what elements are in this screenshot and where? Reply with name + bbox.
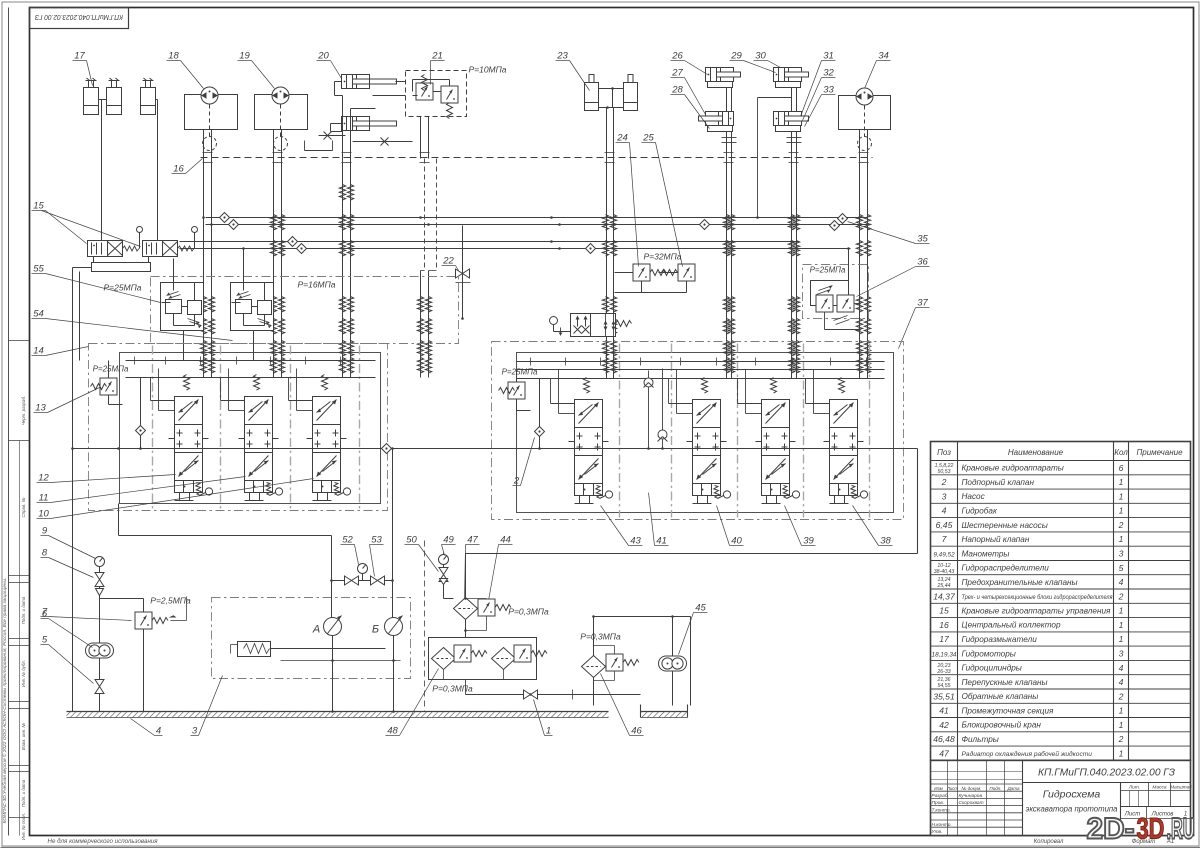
svg-text:36: 36 xyxy=(917,257,928,268)
svg-text:Изм: Изм xyxy=(934,786,943,791)
svg-text:2: 2 xyxy=(513,476,520,487)
shut-off valve 5 xyxy=(95,680,104,694)
svg-text:КОМПАС-3D Учебная версия © 202: КОМПАС-3D Учебная версия © 2022 ООО АСКО… xyxy=(1,578,8,824)
svg-text:4: 4 xyxy=(942,506,947,516)
block 14 housing xyxy=(120,353,381,504)
svg-text:18,19,34: 18,19,34 xyxy=(932,651,957,658)
servo rod xyxy=(271,648,386,650)
svg-text:Взам. инв. №: Взам. инв. № xyxy=(21,723,26,750)
svg-text:17: 17 xyxy=(74,51,85,62)
wire port B motor19 xyxy=(281,130,283,378)
svg-text:P=25МПа: P=25МПа xyxy=(103,283,141,293)
wire pumpB pressure xyxy=(392,449,394,618)
margin vertical texts xyxy=(1,396,26,840)
svg-text:1: 1 xyxy=(1119,506,1124,516)
svg-text:1: 1 xyxy=(1119,748,1124,758)
left margin strip xyxy=(8,8,10,836)
svg-text:P=0,3МПа: P=0,3МПа xyxy=(580,632,621,642)
svg-text:Подп.: Подп. xyxy=(989,786,1001,791)
svg-text:Масса: Масса xyxy=(1152,785,1167,791)
svg-text:21: 21 xyxy=(431,51,443,62)
svg-text:26: 26 xyxy=(671,51,683,62)
wire riser item22 xyxy=(462,226,464,319)
wire tandem link A xyxy=(726,88,728,112)
oil tank 4 xyxy=(67,711,609,713)
hydromotor 18 xyxy=(185,95,238,130)
hydrocylinders 23 (pair) xyxy=(585,75,599,111)
svg-text:1: 1 xyxy=(546,726,551,737)
svg-text:24: 24 xyxy=(616,133,628,144)
wire riser cyl29 B xyxy=(796,132,798,379)
wire tandem link B xyxy=(791,88,793,112)
block 37 internal feed bus xyxy=(517,361,885,363)
svg-text:33: 33 xyxy=(823,85,834,96)
check valve on return xyxy=(382,444,392,454)
svg-text:20: 20 xyxy=(317,51,329,62)
svg-text:Обратные клапаны: Обратные клапаны xyxy=(962,692,1039,701)
wire riser from cylinders 17 to pilot valve 15 xyxy=(101,100,103,242)
svg-text:Дата: Дата xyxy=(1006,786,1020,791)
wire riser cyl26 A xyxy=(726,132,728,379)
svg-text:39: 39 xyxy=(803,536,814,547)
svg-text:Перепускные клапаны: Перепускные клапаны xyxy=(962,678,1048,687)
svg-text:А1: А1 xyxy=(1166,839,1174,845)
svg-text:P=2,5МПа: P=2,5МПа xyxy=(150,596,191,606)
svg-text:№ докум.: № докум. xyxy=(961,786,981,791)
hydrocylinders 29-33 xyxy=(774,68,809,82)
wire valve7 to tank xyxy=(143,599,145,712)
svg-text:Гидробак: Гидробак xyxy=(962,506,998,515)
wire port A motor19 xyxy=(273,130,275,378)
wire pilot supply down xyxy=(79,272,81,361)
svg-text:41: 41 xyxy=(656,536,667,547)
svg-text:45: 45 xyxy=(695,603,706,614)
parts list table xyxy=(931,442,1191,761)
svg-text:1: 1 xyxy=(1119,491,1124,501)
svg-text:25,44: 25,44 xyxy=(937,583,951,589)
wire module55 drain xyxy=(183,331,185,361)
bypass valve block 21, P=10MPa xyxy=(406,71,467,117)
svg-text:2: 2 xyxy=(941,477,947,487)
spool valve section 12 xyxy=(307,375,351,501)
svg-text:Копировал: Копировал xyxy=(1034,839,1064,845)
shut-off valve 8 xyxy=(95,573,104,587)
svg-text:Радиатор охлаждения рабочей жи: Радиатор охлаждения рабочей жидкости xyxy=(962,750,1093,758)
svg-text:26-33: 26-33 xyxy=(936,669,950,675)
pump unit 3 (dash-dot box) xyxy=(212,598,411,679)
block 37 housing xyxy=(517,353,894,513)
wire port B motor34 xyxy=(867,130,869,379)
spool valve section 39 xyxy=(756,378,800,504)
svg-text:48: 48 xyxy=(387,726,398,737)
svg-text:1: 1 xyxy=(1119,606,1124,616)
collector joint circle motor 18 xyxy=(203,137,217,151)
wire drain from valve15 to tank xyxy=(72,268,74,712)
main box right edge xyxy=(917,449,919,554)
gauge 49 with valve 50 xyxy=(439,555,449,565)
bypass valve module 36 P=25MPa xyxy=(803,265,869,319)
svg-text:Б: Б xyxy=(372,624,379,636)
wire to relief 13R xyxy=(516,370,518,382)
svg-text:P=32МПа: P=32МПа xyxy=(643,252,681,262)
svg-text:30: 30 xyxy=(755,51,766,62)
wire drain with check left xyxy=(140,378,142,449)
svg-text:10: 10 xyxy=(38,509,49,520)
check valve circle intermediate a xyxy=(648,371,650,449)
svg-text:4: 4 xyxy=(156,726,161,737)
filter block 48 xyxy=(429,638,537,680)
hydromotor 34 xyxy=(839,96,891,130)
svg-text:47: 47 xyxy=(939,748,950,758)
bus line T1 xyxy=(206,217,868,219)
svg-text:Промежуточная секция: Промежуточная секция xyxy=(962,706,1055,715)
svg-text:29: 29 xyxy=(730,51,742,62)
svg-text:4: 4 xyxy=(1119,663,1124,673)
wire bus to module36 xyxy=(848,249,850,281)
svg-text:Н.контр.: Н.контр. xyxy=(932,822,952,828)
svg-text:Кучинаров: Кучинаров xyxy=(959,793,983,799)
svg-text:3: 3 xyxy=(192,726,198,737)
wire pumpA to tank xyxy=(332,636,334,712)
relief valve 44 P=0.3MPa xyxy=(478,599,495,616)
svg-text:38: 38 xyxy=(880,536,891,547)
bus line T3 xyxy=(180,241,799,243)
bypass valve module 54 xyxy=(231,283,274,331)
svg-text:31: 31 xyxy=(823,51,834,62)
svg-text:Формат: Формат xyxy=(1132,839,1156,845)
spool valve section 40 xyxy=(687,378,731,504)
svg-text:47: 47 xyxy=(467,535,478,546)
closed port marks near item 20 xyxy=(319,135,346,137)
svg-text:Скорохват: Скорохват xyxy=(959,800,984,806)
wire with backup valve 2 xyxy=(539,379,541,449)
pilot cluster 51 (center) xyxy=(550,317,558,325)
svg-text:50,53: 50,53 xyxy=(938,469,951,475)
title block xyxy=(931,760,1191,835)
svg-text:14: 14 xyxy=(33,346,44,357)
wire riser cyl23 A xyxy=(606,108,608,379)
wire riser cyl17c xyxy=(157,100,159,242)
svg-text:14,37: 14,37 xyxy=(933,591,956,601)
check valve on T3 xyxy=(288,237,298,247)
svg-text:4: 4 xyxy=(1119,677,1124,687)
check valve on T2 mid xyxy=(700,220,710,230)
svg-text:Разраб.: Разраб. xyxy=(932,793,949,799)
svg-text:Инв. № подл.: Инв. № подл. xyxy=(21,813,26,840)
manometer 9 xyxy=(95,557,105,567)
svg-text:P=16МПа: P=16МПа xyxy=(297,280,335,290)
bus line T4 xyxy=(180,248,851,250)
svg-text:P=25МПа: P=25МПа xyxy=(93,365,129,374)
wire riser cyl20 B xyxy=(350,109,352,378)
spool valve section 38 xyxy=(824,378,868,504)
svg-text:27: 27 xyxy=(671,68,683,79)
svg-text:Т.контр.: Т.контр. xyxy=(932,807,951,813)
svg-text:22: 22 xyxy=(442,256,454,267)
svg-text:42: 42 xyxy=(939,720,949,730)
svg-text:23: 23 xyxy=(556,51,568,62)
hydraulic lock cylinders 17 (group of three) xyxy=(84,78,99,115)
svg-text:P=25МПа: P=25МПа xyxy=(502,368,538,377)
wire pumpA pressure riser xyxy=(118,504,120,536)
svg-text:46: 46 xyxy=(631,726,642,737)
svg-text:1: 1 xyxy=(1119,706,1124,716)
check valve on T4 mid xyxy=(586,244,596,254)
svg-text:Масштаб: Масштаб xyxy=(1170,785,1192,790)
svg-text:Предохранительные клапаны: Предохранительные клапаны xyxy=(962,578,1078,587)
svg-text:28: 28 xyxy=(671,85,683,96)
wire riser 21b lower xyxy=(428,271,430,378)
svg-text:2: 2 xyxy=(1118,520,1124,530)
svg-text:49: 49 xyxy=(443,535,454,546)
wire riser cyl20 A xyxy=(342,96,344,378)
svg-text:25: 25 xyxy=(642,133,654,144)
four-section distributor block 37 (dash-dot boundary) xyxy=(492,342,904,520)
svg-text:Гидрораспределители: Гидрораспределители xyxy=(962,564,1050,573)
svg-text:Шестеренные насосы: Шестеренные насосы xyxy=(962,521,1048,530)
svg-text:Поз: Поз xyxy=(937,448,951,457)
shut-off valve 53a xyxy=(345,576,359,585)
svg-text:2D-: 2D- xyxy=(1087,813,1135,846)
hydromotor 19 xyxy=(255,95,308,130)
check valve 35b xyxy=(229,220,239,230)
pilot dashed line 21b xyxy=(436,159,438,271)
check valve on T4 xyxy=(297,244,307,254)
wire to relief 13 xyxy=(108,361,110,378)
svg-text:4: 4 xyxy=(1119,577,1124,587)
svg-text:55: 55 xyxy=(33,264,44,275)
svg-text:53: 53 xyxy=(371,535,382,546)
pressure valve 7 P=2.5MPa xyxy=(100,598,144,600)
svg-text:P=0,3МПа: P=0,3МПа xyxy=(508,607,549,617)
svg-text:9,49,52: 9,49,52 xyxy=(933,552,955,559)
svg-text:52: 52 xyxy=(342,535,353,546)
wire riser cyl23 B xyxy=(613,108,615,379)
svg-text:1: 1 xyxy=(1119,477,1124,487)
servo cylinder xyxy=(238,642,271,657)
gauge cluster 52/53 xyxy=(358,564,368,574)
svg-text:Подп. и дата: Подп. и дата xyxy=(21,596,26,624)
svg-text:КП.ГМиГП.040.2023.02.00 ГЗ: КП.ГМиГП.040.2023.02.00 ГЗ xyxy=(34,13,123,20)
three-section distributor block 14 (dash-dot boundary) xyxy=(89,344,388,511)
svg-text:15: 15 xyxy=(33,201,44,212)
spool valve section 43 xyxy=(569,378,613,504)
svg-text:37: 37 xyxy=(917,298,928,309)
svg-text:3: 3 xyxy=(1119,648,1124,658)
hydrocylinder 20 lower xyxy=(342,117,377,131)
svg-text:9: 9 xyxy=(42,526,48,537)
svg-text:11: 11 xyxy=(39,493,49,504)
hydrocylinder 27 (lower) xyxy=(699,112,734,126)
svg-text:Манометры: Манометры xyxy=(962,549,1010,558)
wire through cooler 45 xyxy=(672,617,674,706)
wire module54 feed xyxy=(243,249,245,283)
svg-text:2: 2 xyxy=(1118,691,1124,701)
svg-text:6,45: 6,45 xyxy=(936,520,953,530)
svg-text:3: 3 xyxy=(942,491,947,501)
radiator/filter 47 xyxy=(465,554,467,598)
svg-text:Кол: Кол xyxy=(1114,448,1128,457)
spool valve section 11 xyxy=(239,375,283,501)
svg-text:Инв. № дубл.: Инв. № дубл. xyxy=(21,660,26,687)
svg-text:32: 32 xyxy=(823,68,834,79)
auxiliary tank 46-area xyxy=(640,705,642,718)
check valve right b xyxy=(830,221,840,231)
svg-text:Пров.: Пров. xyxy=(932,800,945,806)
gear pump 6 xyxy=(86,643,114,658)
svg-text:12: 12 xyxy=(38,473,49,484)
svg-text:Крановые гидроаппараты управле: Крановые гидроаппараты управления xyxy=(962,606,1112,615)
wire pumpB to tank xyxy=(393,636,395,712)
svg-text:5: 5 xyxy=(42,635,48,646)
svg-text:Подп. и дата: Подп. и дата xyxy=(21,779,26,807)
wire riser valve21 A xyxy=(420,117,422,159)
relief valve 13 (left block) P=25MPa xyxy=(100,378,117,395)
block 14 internal feed bus xyxy=(126,360,376,362)
svg-text:44: 44 xyxy=(500,535,511,546)
main return line xyxy=(73,448,918,450)
svg-text:6: 6 xyxy=(1119,463,1124,473)
svg-text:Крановые гидроаппараты: Крановые гидроаппараты xyxy=(962,464,1064,473)
svg-text:Подпорный клапан: Подпорный клапан xyxy=(962,478,1035,487)
svg-text:P=25МПа: P=25МПа xyxy=(810,266,846,275)
svg-text:КП.ГМиГП.040.2023.02.00 ГЗ: КП.ГМиГП.040.2023.02.00 ГЗ xyxy=(1038,768,1176,779)
svg-text:Напорный клапан: Напорный клапан xyxy=(962,535,1030,544)
hydrocylinder 20 upper xyxy=(342,75,377,89)
svg-text:50: 50 xyxy=(406,535,417,546)
svg-text:Гидроцилиндры: Гидроцилиндры xyxy=(962,664,1022,673)
check valve circle intermediate b xyxy=(662,369,664,449)
wire port A motor34 xyxy=(859,130,861,379)
svg-text:Насос: Насос xyxy=(962,492,985,501)
wire stub cylinder 17c xyxy=(156,99,158,101)
svg-text:Лит.: Лит. xyxy=(1128,785,1140,791)
svg-text:2: 2 xyxy=(1118,734,1124,744)
svg-text:Справ. №: Справ. № xyxy=(21,497,26,517)
spool valve section 10 xyxy=(169,375,213,501)
svg-text:35: 35 xyxy=(917,234,928,245)
wire cooler to tank2 xyxy=(690,617,692,706)
svg-text:Утв.: Утв. xyxy=(932,829,943,835)
svg-text:1: 1 xyxy=(1119,634,1124,644)
svg-text:5: 5 xyxy=(1119,563,1124,573)
svg-text:18: 18 xyxy=(168,51,179,62)
check valve right a xyxy=(838,214,848,224)
svg-text:1: 1 xyxy=(1119,720,1124,730)
svg-text:19: 19 xyxy=(239,51,250,62)
svg-text:Наименование: Наименование xyxy=(1008,448,1064,457)
wire module54 drain xyxy=(253,331,255,361)
svg-text:17: 17 xyxy=(939,634,950,644)
svg-text:35,51: 35,51 xyxy=(933,691,955,701)
svg-text:Гидросхема: Гидросхема xyxy=(1043,789,1101,801)
pilot dashed line 21a xyxy=(424,159,426,271)
relief valve 13-right P=25MPa xyxy=(508,382,525,399)
svg-text:Фильтры: Фильтры xyxy=(962,735,999,744)
svg-text:6: 6 xyxy=(42,609,48,620)
svg-text:16: 16 xyxy=(939,620,949,630)
svg-text:15: 15 xyxy=(939,606,949,616)
wire riser 21a lower xyxy=(420,271,422,378)
wire left service column xyxy=(99,557,101,712)
svg-text:P=10МПа: P=10МПа xyxy=(468,65,506,75)
pilot control valves 15 xyxy=(88,227,143,257)
svg-text:Блокировочный кран: Блокировочный кран xyxy=(962,721,1042,730)
drain line with valve 1 xyxy=(466,694,641,696)
svg-text:54: 54 xyxy=(33,309,44,320)
wire riser cyl29 A xyxy=(791,132,793,379)
svg-text:Примечание: Примечание xyxy=(1136,448,1183,457)
svg-text:Черт. разраб.: Черт. разраб. xyxy=(21,396,26,425)
svg-text:46,48: 46,48 xyxy=(933,734,955,744)
svg-text:Гидромоторы: Гидромоторы xyxy=(962,649,1016,658)
svg-text:13: 13 xyxy=(35,403,46,414)
svg-text:40: 40 xyxy=(731,536,742,547)
wire port A motor18 xyxy=(203,130,205,378)
svg-text:41: 41 xyxy=(939,706,949,716)
wire cyl17 pair link xyxy=(99,99,107,101)
wire module55 feed xyxy=(173,259,175,283)
wire riser cyl26 B xyxy=(731,132,733,379)
svg-text:54,55: 54,55 xyxy=(938,683,951,689)
check valve 35a xyxy=(220,213,230,223)
svg-text:Центральный коллектор: Центральный коллектор xyxy=(962,621,1061,630)
wire cross link xyxy=(758,97,792,99)
relief valves 24/25 P=32MPa xyxy=(633,264,650,281)
wire filter46 to tank2 xyxy=(593,617,595,706)
svg-text:34: 34 xyxy=(878,51,889,62)
watermark 2D-3D.RU xyxy=(1087,813,1195,846)
bypass valve module 55 xyxy=(151,277,459,344)
return to cooler line xyxy=(594,616,691,618)
svg-text:8: 8 xyxy=(42,548,48,559)
svg-text:1: 1 xyxy=(1119,620,1124,630)
svg-text:Гидроразмыкатели: Гидроразмыкатели xyxy=(962,635,1038,644)
hydrocylinder 30 (lower) xyxy=(774,112,809,126)
svg-text:P=0,3МПа: P=0,3МПа xyxy=(432,684,473,694)
svg-text:43: 43 xyxy=(630,536,641,547)
wire cyl20 rod to block21 xyxy=(396,81,406,83)
svg-text:2: 2 xyxy=(1118,591,1124,601)
svg-text:16: 16 xyxy=(173,164,184,175)
svg-text:Лист: Лист xyxy=(946,786,958,791)
wire port B motor18 xyxy=(211,130,213,378)
central collector 16 (dashed line) xyxy=(201,157,873,159)
top-left stamp xyxy=(30,8,129,29)
hydrocylinders 26-28 xyxy=(706,68,741,82)
svg-text:3: 3 xyxy=(1119,549,1124,559)
boundary dashed line xyxy=(424,541,426,712)
main box bottom edge xyxy=(466,553,918,555)
bus line T2 xyxy=(206,224,868,226)
wire riser valve21 B xyxy=(428,117,430,159)
svg-text:1: 1 xyxy=(1119,534,1124,544)
shut-off valve 53b xyxy=(371,576,385,585)
svg-text:Трех- и четырехсекционные блок: Трех- и четырехсекционные блоки гидрорас… xyxy=(962,593,1113,601)
svg-text:А: А xyxy=(312,624,320,636)
svg-text:38-40,43: 38-40,43 xyxy=(934,569,955,575)
svg-text:Не для коммерческого использов: Не для коммерческого использования xyxy=(48,838,159,845)
check arrow below valve 8 xyxy=(96,589,104,596)
